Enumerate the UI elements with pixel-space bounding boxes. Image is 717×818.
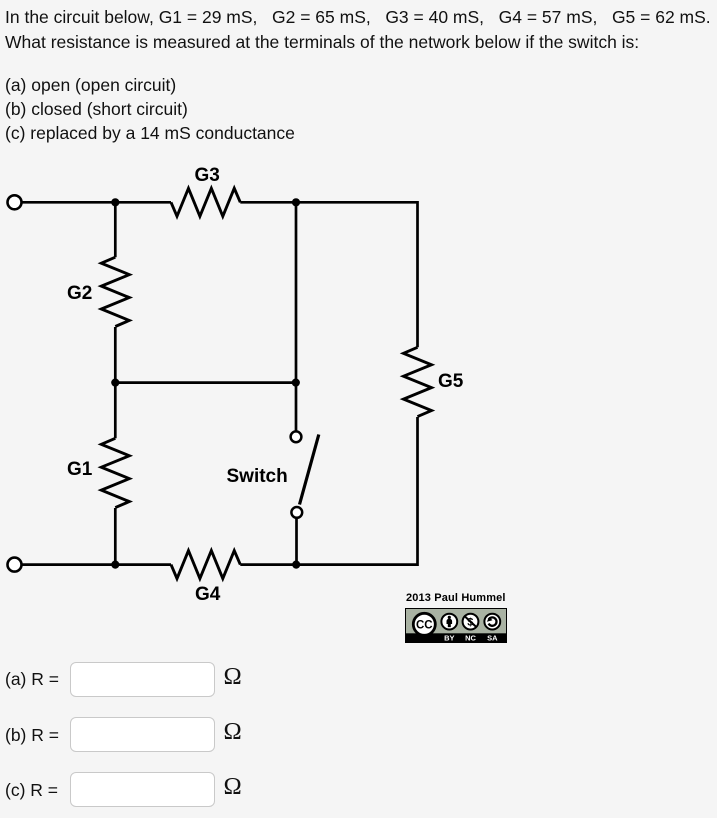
svg-text:CC: CC xyxy=(415,619,432,631)
svg-text:SA: SA xyxy=(487,633,498,642)
svg-text:G2: G2 xyxy=(67,283,92,304)
svg-text:Switch: Switch xyxy=(227,466,288,487)
svg-text:G3: G3 xyxy=(195,165,220,186)
svg-text:G4: G4 xyxy=(195,584,221,605)
svg-text:G5: G5 xyxy=(438,371,464,392)
svg-text:BY: BY xyxy=(444,633,454,642)
svg-text:G1: G1 xyxy=(67,459,93,480)
svg-text:NC: NC xyxy=(465,633,476,642)
